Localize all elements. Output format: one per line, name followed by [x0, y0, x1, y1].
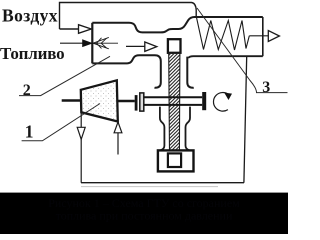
- arrow exhaust out (open): [268, 31, 279, 42]
- regenerator duct bottom wall: [188, 56, 263, 58]
- wire down to bottom: [80, 139, 82, 182]
- turbine disc shaft (hatched): [169, 53, 180, 153]
- compressor outlet pipe down: [80, 113, 82, 128]
- wire air-duct outer top line: [60, 3, 197, 30]
- main shaft lower line: [144, 104, 202, 106]
- bearing inner square: [168, 153, 181, 167]
- turbine casing right hook: [187, 57, 193, 88]
- compressor C1 body: [81, 80, 118, 121]
- fuel line: [60, 42, 83, 44]
- combustion chamber bottom wall with casing hook: [92, 55, 161, 88]
- turbine blade box: [168, 39, 181, 53]
- shadow line: [81, 186, 218, 188]
- svg-text:Топливо: Топливо: [0, 44, 64, 63]
- arrow air intake up (open): [114, 122, 122, 133]
- leader 3: [197, 8, 288, 93]
- arrow air inlet (open): [79, 25, 92, 34]
- pedestal right profile: [186, 107, 191, 151]
- enclosure right border: [244, 56, 247, 182]
- svg-text:топлива при постоянном давлени: топлива при постоянном давлении: [56, 209, 233, 223]
- arrow gas flow in nozzle: [126, 45, 145, 47]
- compressor-turbine shaft: [118, 100, 135, 103]
- coupling disc 2 / shaft left flange: [140, 93, 144, 111]
- regenerator zigzag coil: [197, 18, 250, 51]
- exit line: [249, 35, 268, 37]
- pedestal left profile: [160, 107, 165, 151]
- shaft right flange: [202, 92, 206, 110]
- wire air-duct bottom stub: [60, 28, 79, 30]
- svg-text:Воздух: Воздух: [2, 5, 58, 25]
- main shaft upper line: [144, 96, 202, 98]
- load shaft stub: [62, 99, 81, 102]
- combustion chamber top wall into duct top: [92, 17, 262, 32]
- rotation arrow arc: [213, 93, 228, 112]
- leader 1: [22, 104, 100, 141]
- regenerator duct right wall: [262, 17, 264, 56]
- svg-text:1: 1: [25, 122, 34, 142]
- enclosure bottom border: [81, 182, 244, 184]
- svg-text:3: 3: [262, 79, 270, 96]
- combustion chamber left wall: [91, 23, 93, 64]
- bearing foot box: [158, 150, 194, 171]
- leader 2: [19, 56, 110, 95]
- arrow air down (open): [77, 127, 85, 139]
- rotation arrowhead: [224, 93, 232, 100]
- caption box: [0, 193, 288, 234]
- arrow fuel (solid): [83, 40, 93, 47]
- coupling disc 1: [135, 95, 138, 111]
- intake pipe: [117, 133, 119, 155]
- svg-text:2: 2: [23, 82, 31, 99]
- injector spray: [93, 37, 118, 48]
